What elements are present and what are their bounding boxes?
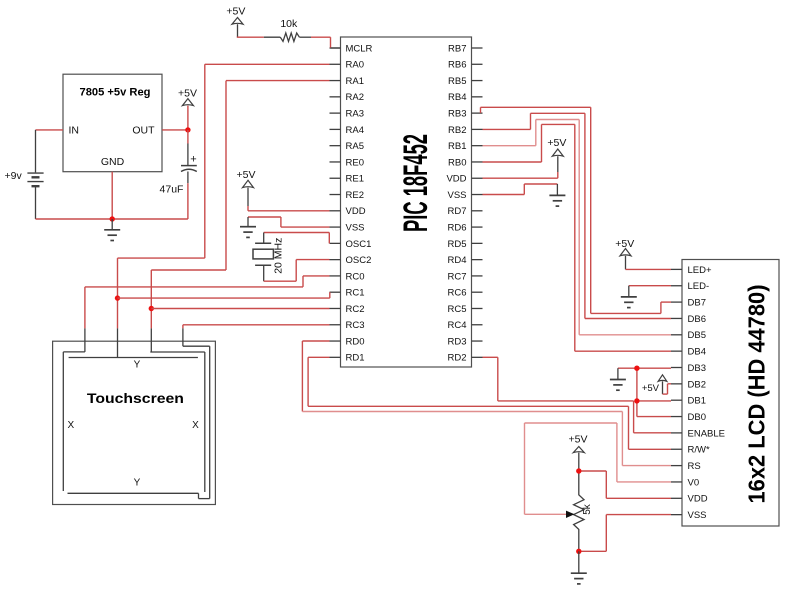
svg-text:RD1: RD1 bbox=[346, 353, 365, 364]
pin RD4 (PIC right) bbox=[447, 255, 482, 266]
svg-text:+9v: +9v bbox=[5, 170, 23, 182]
touchscreen panel outer box bbox=[53, 341, 216, 504]
pin DB7 (LCD) bbox=[671, 298, 706, 309]
svg-text:RB5: RB5 bbox=[448, 76, 466, 87]
pin MCLR (PIC left) bbox=[330, 43, 373, 54]
svg-text:VSS: VSS bbox=[688, 510, 707, 521]
wire 7805 GND pin bbox=[111, 172, 113, 219]
svg-text:DB7: DB7 bbox=[688, 298, 706, 309]
svg-text:+5V: +5V bbox=[642, 383, 660, 394]
wire RA1 to touchscreen X-right bbox=[151, 81, 329, 352]
ground (LCD DB3/DB1/DB0) bbox=[610, 368, 626, 390]
power +5V (PIC VDD left) bbox=[237, 169, 256, 206]
pin RD5 (PIC right) bbox=[447, 239, 482, 250]
wire resistor to MCLR bbox=[299, 37, 340, 48]
power +5V (LCD DB2) bbox=[642, 375, 667, 394]
wire +5V to resistor bbox=[237, 36, 264, 38]
ground (LCD LED-) bbox=[621, 286, 637, 308]
pin R/W* (LCD) bbox=[671, 445, 710, 456]
svg-text:R/W*: R/W* bbox=[688, 445, 710, 456]
pin RD7 (PIC right) bbox=[447, 206, 482, 217]
svg-text:DB6: DB6 bbox=[688, 314, 706, 325]
svg-text:RE0: RE0 bbox=[346, 157, 364, 168]
svg-text:RD4: RD4 bbox=[447, 255, 466, 266]
wire DB2 to +5V bbox=[663, 384, 672, 394]
svg-text:RC1: RC1 bbox=[346, 288, 365, 299]
svg-text:LED-: LED- bbox=[688, 281, 710, 292]
power +5V (contrast pot) bbox=[569, 434, 588, 472]
pin DB4 (LCD) bbox=[671, 347, 706, 358]
svg-text:RA0: RA0 bbox=[346, 60, 364, 71]
node junction DB3 bbox=[634, 366, 639, 371]
node junction GND rail bbox=[110, 216, 115, 221]
wire 7805 OUT bbox=[162, 129, 188, 131]
svg-text:+5V: +5V bbox=[178, 88, 197, 100]
svg-text:+5V: +5V bbox=[615, 238, 634, 250]
svg-text:ENABLE: ENABLE bbox=[688, 428, 726, 439]
crystal Y1 20 MHz bbox=[253, 238, 285, 274]
svg-text:Touchscreen: Touchscreen bbox=[87, 391, 184, 406]
svg-text:RB3: RB3 bbox=[448, 109, 466, 120]
pin RD3 (PIC right) bbox=[447, 336, 482, 347]
svg-text:RE1: RE1 bbox=[346, 174, 364, 185]
pin DB2 (LCD) bbox=[671, 379, 706, 390]
wire RB3 to LCD DB7 bbox=[481, 107, 672, 313]
svg-text:IN: IN bbox=[69, 124, 80, 136]
node junction pot bottom bbox=[576, 549, 581, 554]
svg-text:X: X bbox=[67, 420, 74, 431]
ground (regulator) bbox=[104, 219, 120, 241]
pin RC7 (PIC right) bbox=[447, 271, 482, 282]
svg-text:RA2: RA2 bbox=[346, 92, 364, 103]
wire RB2 to LCD DB6 bbox=[483, 113, 672, 318]
pin RC0 (PIC left) bbox=[330, 271, 365, 282]
svg-text:RB1: RB1 bbox=[448, 141, 466, 152]
svg-text:+5V: +5V bbox=[569, 434, 588, 446]
svg-text:RD0: RD0 bbox=[346, 336, 365, 347]
svg-text:GND: GND bbox=[101, 156, 125, 168]
wire LED- to ground bbox=[629, 285, 671, 287]
svg-text:X: X bbox=[192, 420, 199, 431]
node junction OUT bbox=[185, 127, 190, 132]
resistor R1 10k bbox=[280, 33, 299, 41]
wire RD2 to LCD ENABLE bbox=[483, 357, 672, 433]
wire pot top to LCD VDD bbox=[579, 471, 671, 498]
wire OSC1 to crystal bbox=[264, 233, 330, 244]
ground (PIC VSS left) bbox=[240, 217, 256, 237]
wire battery to 7805 IN bbox=[36, 130, 64, 173]
wire crystal to OSC2 bbox=[264, 260, 330, 282]
svg-text:RC3: RC3 bbox=[346, 320, 365, 331]
wire RC3 to touchscreen Y-bottom bbox=[183, 325, 330, 346]
wire LED+ bbox=[626, 268, 672, 270]
pin RA1 (PIC left) bbox=[330, 76, 364, 87]
svg-text:RC6: RC6 bbox=[447, 288, 466, 299]
wire capacitor to rail bbox=[187, 172, 189, 220]
node junction DB1 bbox=[634, 398, 639, 403]
pin V0 (LCD) bbox=[671, 477, 699, 488]
svg-text:DB3: DB3 bbox=[688, 363, 706, 374]
pin RA0 (PIC left) bbox=[330, 60, 364, 71]
capacitor C1 47uF bbox=[160, 154, 197, 196]
svg-text:RA4: RA4 bbox=[346, 125, 364, 136]
svg-text:5k: 5k bbox=[582, 503, 593, 515]
svg-text:RE2: RE2 bbox=[346, 190, 364, 201]
svg-text:RD6: RD6 bbox=[447, 222, 466, 233]
wire RB1 to LCD DB5 bbox=[483, 120, 672, 335]
pin VDD (PIC left) bbox=[330, 206, 366, 217]
svg-text:DB2: DB2 bbox=[688, 379, 706, 390]
pin RB3 (PIC right) bbox=[448, 109, 482, 120]
wire RC1 line bbox=[118, 292, 330, 298]
svg-text:RB2: RB2 bbox=[448, 125, 466, 136]
power +5V (MCLR pull-up) bbox=[226, 5, 245, 37]
svg-text:VDD: VDD bbox=[446, 174, 466, 185]
pin RA4 (PIC left) bbox=[330, 125, 364, 136]
potentiometer R2 5k bbox=[566, 471, 593, 551]
pin DB6 (LCD) bbox=[671, 314, 706, 325]
battery BT1 +9v bbox=[27, 173, 43, 186]
IC U2 16x2 LCD (HD 44780) module bbox=[682, 260, 779, 527]
pin RA5 (PIC left) bbox=[330, 141, 364, 152]
svg-text:RD3: RD3 bbox=[447, 336, 466, 347]
pin RC2 (PIC left) bbox=[330, 304, 365, 315]
pin RD6 (PIC right) bbox=[447, 222, 482, 233]
svg-text:RC4: RC4 bbox=[447, 320, 466, 331]
wire pot wiper to LCD V0 bbox=[525, 423, 672, 514]
pin RC4 (PIC right) bbox=[447, 320, 482, 331]
pin VSS (PIC left) bbox=[330, 222, 365, 233]
wire battery negative to rail bbox=[35, 186, 37, 219]
svg-text:RC0: RC0 bbox=[346, 271, 365, 282]
pin RC1 (PIC left) bbox=[330, 288, 365, 299]
node junction RA1/RC2 bbox=[149, 306, 154, 311]
svg-text:RB0: RB0 bbox=[448, 157, 466, 168]
svg-text:RA3: RA3 bbox=[346, 109, 364, 120]
svg-text:+5V: +5V bbox=[237, 169, 256, 181]
svg-text:VSS: VSS bbox=[346, 222, 365, 233]
pin OSC1 (PIC left) bbox=[330, 239, 372, 250]
pin RC5 (PIC right) bbox=[447, 304, 482, 315]
pin RD2 (PIC right) bbox=[447, 353, 482, 364]
pin RC3 (PIC left) bbox=[330, 320, 365, 331]
pin RB7 (PIC right) bbox=[448, 43, 482, 54]
wire RD0 to LCD RS bbox=[302, 341, 671, 466]
pin RB5 (PIC right) bbox=[448, 76, 482, 87]
svg-text:PIC 18F452: PIC 18F452 bbox=[397, 134, 435, 232]
pin RD0 (PIC left) bbox=[330, 336, 365, 347]
ground (pot bottom) bbox=[571, 551, 587, 584]
node junction RA0/RC1 bbox=[115, 295, 120, 300]
pin DB3 (LCD) bbox=[671, 363, 706, 374]
svg-text:OUT: OUT bbox=[132, 124, 155, 136]
svg-text:RB6: RB6 bbox=[448, 60, 466, 71]
svg-text:VSS: VSS bbox=[447, 190, 466, 201]
pin RB4 (PIC right) bbox=[448, 92, 482, 103]
wire RB0 to LCD DB4 bbox=[483, 124, 672, 351]
wire DB3 to ground bbox=[618, 367, 671, 369]
svg-text:47uF: 47uF bbox=[160, 183, 184, 195]
svg-text:RD5: RD5 bbox=[447, 239, 466, 250]
wire VSS left bbox=[248, 217, 330, 227]
wire ground rail bbox=[36, 218, 188, 220]
pin VSS (PIC right) bbox=[447, 190, 482, 201]
svg-text:RC5: RC5 bbox=[447, 304, 466, 315]
wire OUT node to capacitor bbox=[187, 130, 189, 166]
pin RE2 (PIC left) bbox=[330, 190, 364, 201]
svg-text:OSC2: OSC2 bbox=[346, 255, 372, 266]
touchscreen Y-bottom plate bbox=[68, 346, 210, 498]
svg-text:7805 +5v Reg: 7805 +5v Reg bbox=[80, 87, 151, 99]
pin RS (LCD) bbox=[671, 461, 701, 472]
svg-text:LED+: LED+ bbox=[688, 265, 712, 276]
svg-text:RD2: RD2 bbox=[447, 353, 466, 364]
svg-text:V0: V0 bbox=[688, 477, 700, 488]
wire DB3 to DB1 to DB0 bbox=[637, 368, 671, 416]
wire pot bottom to LCD VSS bbox=[579, 515, 671, 552]
pin RC6 (PIC right) bbox=[447, 288, 482, 299]
svg-text:RB7: RB7 bbox=[448, 43, 466, 54]
power +5V (LCD LED+) bbox=[615, 238, 634, 269]
touchscreen X-right plate bbox=[150, 352, 205, 492]
pin LED- (LCD) bbox=[671, 281, 709, 292]
wire RC2 line bbox=[151, 308, 329, 310]
svg-text:RS: RS bbox=[688, 461, 701, 472]
svg-text:RA5: RA5 bbox=[346, 141, 364, 152]
pin OSC2 (PIC left) bbox=[330, 255, 372, 266]
pin VDD (LCD) bbox=[671, 494, 708, 505]
node junction pot top bbox=[576, 468, 581, 473]
pin DB1 (LCD) bbox=[671, 396, 706, 407]
pin VSS (LCD) bbox=[671, 510, 707, 521]
wire RA0 to touchscreen Y-top bbox=[118, 64, 330, 357]
pin RD1 (PIC left) bbox=[330, 353, 365, 364]
svg-text:+: + bbox=[190, 154, 196, 166]
svg-text:RD7: RD7 bbox=[447, 206, 466, 217]
svg-text:DB4: DB4 bbox=[688, 347, 706, 358]
svg-text:DB0: DB0 bbox=[688, 412, 706, 423]
wire VSS right bbox=[483, 184, 558, 195]
svg-text:10k: 10k bbox=[280, 18, 298, 30]
pin VDD (PIC right) bbox=[446, 174, 482, 185]
touchscreen Y-top plate bbox=[69, 357, 198, 359]
svg-text:+5V: +5V bbox=[226, 5, 245, 17]
svg-text:16x2 LCD (HD 44780): 16x2 LCD (HD 44780) bbox=[744, 285, 770, 504]
pin RE1 (PIC left) bbox=[330, 174, 364, 185]
power +5V (PIC VDD right) bbox=[547, 137, 566, 172]
svg-text:Y: Y bbox=[134, 478, 141, 489]
pin RB2 (PIC right) bbox=[448, 125, 482, 136]
svg-text:DB1: DB1 bbox=[688, 396, 706, 407]
svg-text:MCLR: MCLR bbox=[346, 43, 373, 54]
pin RA2 (PIC left) bbox=[330, 92, 364, 103]
svg-text:RC2: RC2 bbox=[346, 304, 365, 315]
wire VDD left bbox=[248, 206, 330, 211]
ground (PIC VSS right) bbox=[549, 184, 565, 206]
svg-text:+5V: +5V bbox=[547, 137, 566, 149]
pin ENABLE (LCD) bbox=[671, 428, 725, 439]
svg-text:VDD: VDD bbox=[346, 206, 366, 217]
svg-text:RA1: RA1 bbox=[346, 76, 364, 87]
IC U1 PIC 18F452 microcontroller bbox=[341, 37, 472, 367]
pin RE0 (PIC left) bbox=[330, 157, 364, 168]
pin RB1 (PIC right) bbox=[448, 141, 482, 152]
svg-text:RC7: RC7 bbox=[447, 271, 466, 282]
wire +5V to OUT node bbox=[187, 106, 189, 130]
pin RB0 (PIC right) bbox=[448, 157, 482, 168]
touchscreen X-left plate bbox=[63, 352, 85, 491]
svg-text:20 MHz: 20 MHz bbox=[273, 238, 285, 274]
wire RC0 to touchscreen X-left bbox=[85, 276, 330, 352]
wire VDD right bbox=[483, 172, 558, 178]
power +5V (7805 OUT) bbox=[178, 88, 197, 106]
svg-text:VDD: VDD bbox=[688, 494, 708, 505]
pin DB5 (LCD) bbox=[671, 330, 706, 341]
svg-text:RB4: RB4 bbox=[448, 92, 466, 103]
pin LED+ (LCD) bbox=[671, 265, 712, 276]
pin RA3 (PIC left) bbox=[330, 109, 364, 120]
svg-text:Y: Y bbox=[134, 359, 141, 370]
pin RB6 (PIC right) bbox=[448, 60, 482, 71]
svg-text:DB5: DB5 bbox=[688, 330, 706, 341]
wire RD1 to LCD R/W* bbox=[308, 357, 671, 449]
IC U3 7805 +5v regulator bbox=[63, 74, 162, 172]
pin DB0 (LCD) bbox=[671, 412, 706, 423]
svg-text:OSC1: OSC1 bbox=[346, 239, 372, 250]
